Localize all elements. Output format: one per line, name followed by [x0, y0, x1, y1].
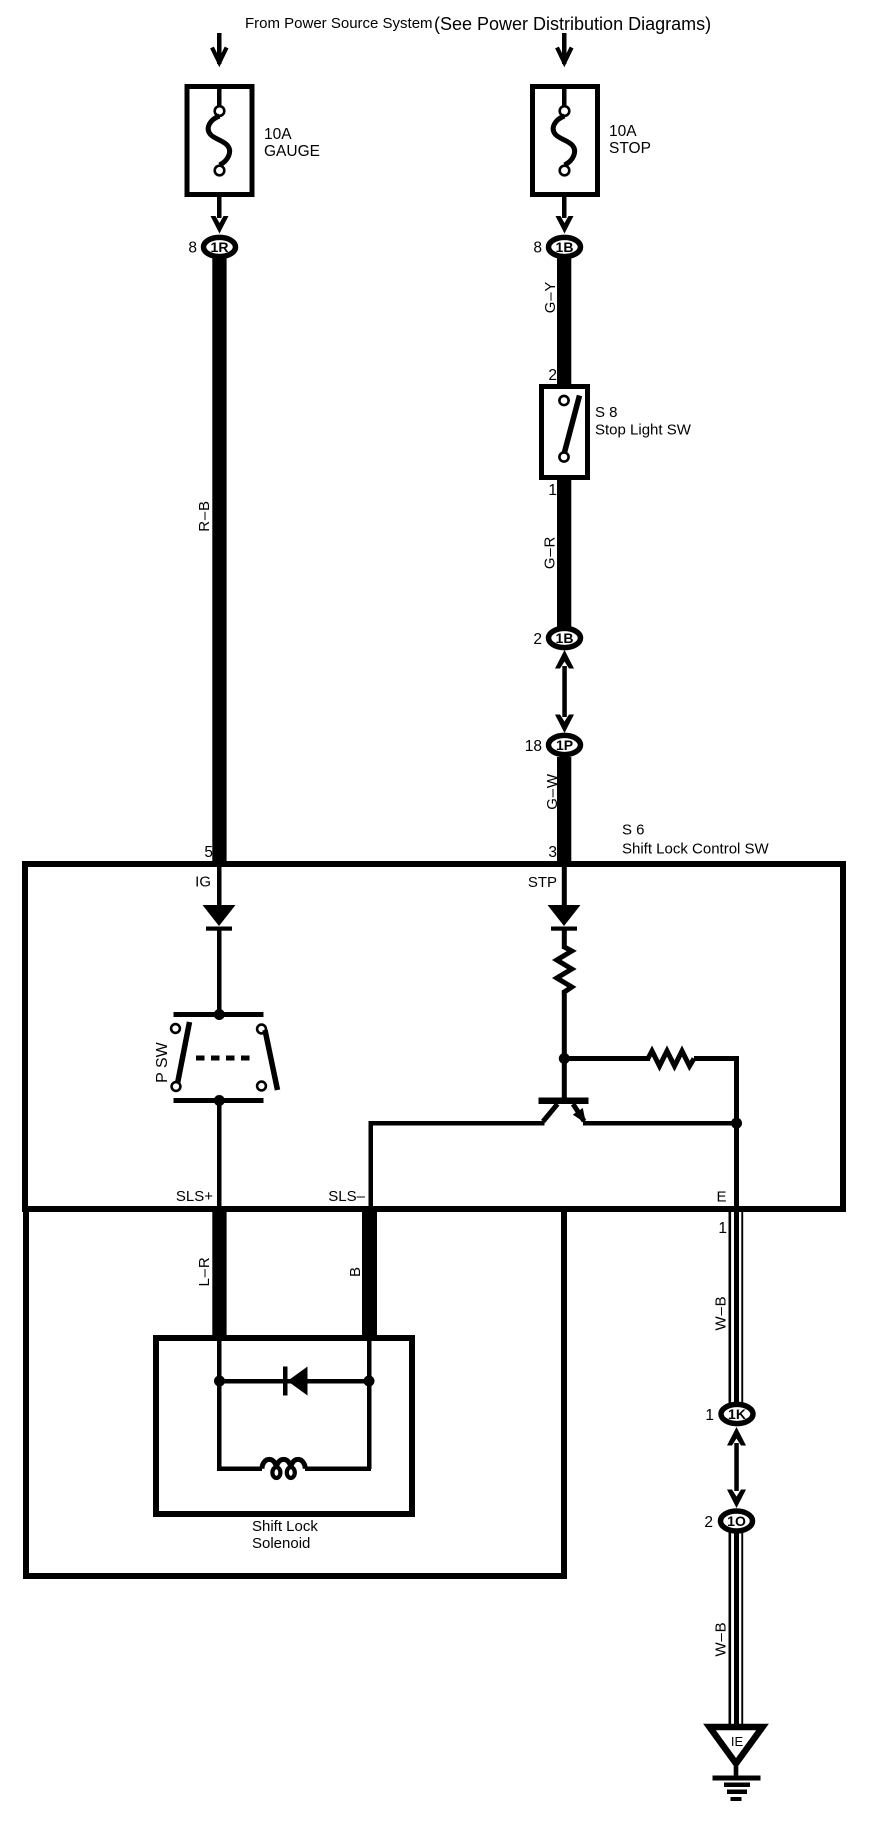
P SW blade left	[177, 1022, 190, 1086]
connector 8 (1B)	[549, 237, 581, 256]
wire: right down to coil	[367, 1381, 372, 1469]
svg-text:2: 2	[533, 631, 542, 648]
P SW blade right	[265, 1030, 278, 1090]
svg-text:8: 8	[533, 240, 542, 257]
transistor Q1 base bar	[539, 1098, 589, 1105]
svg-text:L–R: L–R	[196, 1257, 213, 1287]
wire: junction to resistor R2	[564, 1056, 650, 1061]
svg-text:Shift Lock: Shift Lock	[252, 1518, 318, 1535]
svg-text:10A: 10A	[264, 126, 292, 143]
S8 switch blade	[564, 396, 580, 457]
svg-text:P SW: P SW	[154, 1041, 171, 1083]
svg-text:1: 1	[718, 1220, 727, 1237]
connector 1 (1K)	[721, 1404, 753, 1423]
node: rail right	[364, 1376, 375, 1387]
wire: coil rail right	[305, 1467, 371, 1472]
svg-text:W–B: W–B	[713, 1622, 730, 1657]
wire: collector run to E line	[583, 1121, 739, 1126]
wire: junction to transistor base	[562, 1060, 567, 1099]
P SW top rail	[174, 1012, 264, 1017]
svg-text:1O: 1O	[727, 1513, 746, 1529]
node: base junction	[559, 1053, 570, 1064]
S8 top contact circle	[559, 396, 568, 405]
wire: right feed from power source	[562, 33, 567, 64]
transistor Q1 collector lead with arrow	[573, 1104, 584, 1121]
wire B thick	[362, 1212, 377, 1338]
wire: ground stub	[734, 1763, 739, 1777]
wire: R1 to junction node	[562, 990, 567, 1060]
wire: right inner vertical to diode rail	[367, 1341, 372, 1381]
feed arrowhead left	[212, 48, 227, 63]
arrowhead up below connector 1K	[727, 1427, 746, 1446]
ground bar 2	[724, 1783, 750, 1788]
svg-text:5: 5	[204, 844, 213, 861]
wire: junction between connectors	[562, 666, 567, 717]
svg-text:STOP: STOP	[609, 140, 651, 157]
svg-text:B: B	[347, 1267, 364, 1277]
switch S8 Stop Light SW box	[542, 387, 588, 478]
node: P SW top junction	[214, 1009, 225, 1020]
wire: fuse F2 to connector 1B	[562, 194, 567, 218]
wire G-W thick	[557, 757, 571, 862]
feed arrowhead right	[557, 48, 572, 63]
box: shift lock solenoid assembly	[26, 1209, 564, 1576]
fuse F1 element S-curve	[208, 116, 229, 165]
wire: right vertical (R2 corner down to E)	[734, 1056, 739, 1208]
svg-text:IE: IE	[731, 1734, 744, 1749]
arrowhead into connector 1R	[211, 216, 229, 234]
diode D3 (flyback)	[283, 1367, 288, 1396]
fuse F1 10A GAUGE box	[187, 87, 252, 195]
wire: fuse F1 to connector 1R	[217, 194, 222, 218]
arrowhead into connector 1B	[556, 216, 574, 234]
wire: IG pin into diode	[217, 867, 222, 907]
connector 18 (1P)	[549, 735, 581, 754]
svg-text:G–W: G–W	[544, 773, 561, 810]
node: P SW bottom junction	[214, 1095, 225, 1106]
arrowhead up below connector 2(1B)	[555, 650, 574, 669]
svg-text:G–R: G–R	[542, 536, 559, 569]
ground bar 1	[713, 1776, 761, 1781]
wire W-B shielded upper (triple line)	[729, 1212, 732, 1404]
node: rail left	[214, 1376, 225, 1387]
svg-text:1: 1	[705, 1407, 714, 1424]
svg-text:1R: 1R	[211, 239, 229, 255]
svg-text:1B: 1B	[556, 630, 574, 646]
solenoid coil L1	[262, 1459, 305, 1468]
svg-text:8: 8	[188, 240, 197, 257]
P SW contact bottom-left	[172, 1082, 181, 1091]
svg-text:1P: 1P	[556, 737, 573, 753]
wire G-R thick	[557, 478, 571, 627]
ground IE triangle	[710, 1727, 763, 1764]
svg-text:2: 2	[704, 1514, 713, 1531]
node: collector/E junction	[731, 1118, 742, 1129]
wire: SLS- vertical drop	[369, 1121, 374, 1208]
svg-text:SLS–: SLS–	[328, 1188, 365, 1205]
svg-text:R–B: R–B	[196, 500, 213, 532]
svg-text:From Power Source System: From Power Source System	[245, 15, 433, 32]
diode D1 (IG branch)	[203, 905, 236, 926]
P SW contact top-right	[257, 1025, 266, 1034]
wire R-B thick	[212, 258, 226, 862]
svg-text:(See Power Distribution Diagra: (See Power Distribution Diagrams)	[434, 14, 711, 34]
connector 2 (1O)	[721, 1511, 753, 1531]
wire: diode rail horizontal	[219, 1379, 369, 1384]
svg-text:S 8: S 8	[595, 404, 618, 421]
P SW linkage dashed line	[196, 1056, 253, 1061]
S8 bottom contact circle	[559, 452, 568, 461]
wire: coil rail left	[217, 1467, 262, 1472]
wire: diode D2 to resistor R1	[562, 930, 567, 949]
wire: junction between 1K and 1O	[734, 1443, 739, 1491]
wire: left inner vertical to diode rail	[217, 1341, 222, 1381]
transistor Q1 emitter lead	[543, 1104, 558, 1122]
fuse F2 top terminal circle	[560, 106, 570, 116]
svg-text:SLS+: SLS+	[176, 1188, 213, 1205]
box: shift lock solenoid	[156, 1338, 412, 1514]
arrowhead down into connector 18(1P)	[555, 715, 574, 734]
fuse F2 element S-curve	[553, 116, 574, 165]
svg-text:G–Y: G–Y	[542, 281, 559, 313]
resistor R1 vertical	[557, 947, 572, 992]
wire W-B shielded lower (triple line)	[729, 1532, 732, 1725]
fuse F2 10A STOP box	[533, 87, 598, 195]
wire: into fuse F1	[217, 86, 222, 108]
wire: emitter run to SLS-	[369, 1121, 545, 1126]
connector 2 (1B)	[549, 628, 581, 647]
ground bar 3	[727, 1790, 747, 1795]
wire: diode D1 to P SW	[217, 930, 222, 1015]
ground bar 4	[731, 1797, 742, 1801]
svg-text:1B: 1B	[556, 239, 574, 255]
wire: left down to coil	[217, 1381, 222, 1469]
wire: left feed from power source	[217, 33, 222, 64]
svg-text:2: 2	[548, 367, 557, 384]
svg-text:18: 18	[525, 738, 542, 755]
svg-text:Shift Lock Control SW: Shift Lock Control SW	[622, 841, 770, 858]
box: S6 Shift Lock Control SW	[25, 864, 843, 1209]
svg-text:1: 1	[548, 482, 557, 499]
svg-text:S 6: S 6	[622, 822, 645, 839]
svg-text:Stop Light SW: Stop Light SW	[595, 422, 692, 439]
P SW contact bottom-right	[257, 1082, 266, 1091]
wire: STP pin into diode	[562, 867, 567, 907]
svg-text:STP: STP	[528, 874, 557, 891]
P SW bottom rail	[174, 1098, 264, 1103]
wire: P SW to SLS+	[217, 1103, 222, 1207]
svg-text:1K: 1K	[728, 1406, 746, 1422]
arrowhead down into connector 1O	[727, 1490, 746, 1509]
svg-text:IG: IG	[195, 874, 211, 891]
resistor R2 horizontal	[648, 1051, 694, 1066]
svg-text:10A: 10A	[609, 123, 637, 140]
fuse F2 bottom terminal circle	[560, 166, 570, 176]
P SW contact top-left	[171, 1024, 180, 1033]
wire: R2 to right corner	[694, 1056, 739, 1061]
connector 8 (1R)	[204, 237, 236, 256]
svg-text:W–B: W–B	[713, 1296, 730, 1331]
fuse F1 bottom terminal circle	[215, 166, 225, 176]
svg-text:Solenoid: Solenoid	[252, 1535, 310, 1552]
svg-text:3: 3	[548, 844, 557, 861]
wire L-R thick	[212, 1212, 226, 1338]
fuse F1 top terminal circle	[215, 106, 225, 116]
diode D2 (STP branch)	[548, 905, 581, 926]
wire: into fuse F2	[562, 86, 567, 108]
wire G-Y thick	[557, 258, 571, 385]
svg-text:GAUGE: GAUGE	[264, 143, 320, 160]
svg-text:E: E	[716, 1189, 726, 1206]
